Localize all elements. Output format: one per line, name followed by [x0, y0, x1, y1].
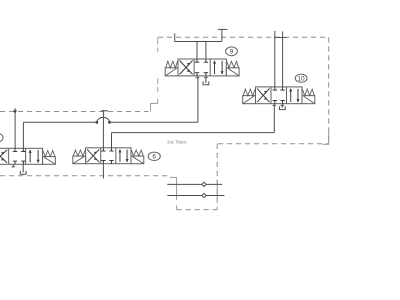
big dashed box bottom-right edge: [218, 143, 329, 145]
spring+solenoid right of valve 9: [227, 61, 239, 68]
big dashed enclosure box (1st valve block), top edge: [158, 36, 329, 38]
label circle 6: [148, 152, 160, 160]
spring+solenoid left of valve 6: [73, 150, 85, 156]
wire: left valve port A up through boundary: [14, 108, 16, 148]
4/3 solenoid valve 10: [256, 87, 303, 104]
crossover hop arc over vertical line: [97, 117, 110, 122]
big dashed box left edge: [157, 37, 159, 44]
left valve drain stub with bar: [12, 164, 14, 167]
junction dot left of crossover: [96, 121, 99, 124]
dashed boundary step to left edge: [151, 102, 158, 104]
coupler dashed sub-box right edge: [216, 144, 218, 210]
valve 10 port bars below body: [273, 104, 277, 106]
riser from valve 9 manifold up left: [174, 33, 176, 41]
wire: valve 9 top ports manifold: [196, 42, 198, 59]
wire: left valve port B up and across to valve 9 drain: [22, 122, 24, 148]
svg-text:9: 9: [230, 49, 234, 56]
wire: valve 6 port A up through boundary, T tick on top: [102, 110, 104, 148]
4/3 solenoid valve 6: [86, 148, 131, 164]
valve 9 tank stub: [205, 76, 207, 82]
svg-text:10: 10: [298, 76, 305, 83]
svg-text:2ος Τάκος: 2ος Τάκος: [167, 138, 187, 144]
wire: valve 6 drain down through dashed line: [102, 164, 104, 179]
coupling line upper: [167, 183, 202, 185]
arrow mark where port A line crosses dashed boundary: [13, 110, 17, 113]
valve 9 port bars below body: [196, 77, 200, 79]
spring+solenoid right of left valve: [43, 151, 55, 157]
4/3 solenoid valve (left, cut off): [0, 148, 43, 164]
spring+solenoid right of valve 6: [131, 150, 143, 156]
spring+solenoid right of valve 10: [302, 89, 314, 96]
quick-coupling diamond upper: [202, 182, 206, 186]
valve 10 work lines rising out of box: [274, 31, 276, 87]
label circle 10: [295, 74, 307, 82]
dashed boundary under valve row: [0, 175, 170, 177]
spring+solenoid left of valve 9: [166, 61, 178, 68]
label circle 9: [226, 47, 238, 56]
dashed boundary line to image left edge: [0, 111, 149, 113]
tank symbol under valve 10: [279, 106, 285, 109]
tank symbol under left valve: [20, 171, 26, 174]
wire continues to valve 9 drain riser: [110, 121, 198, 123]
riser from valve 9 manifold up right with T cap: [221, 29, 223, 41]
quick-coupling diamond lower: [202, 193, 206, 197]
coupler dashed sub-box bottom edge: [177, 209, 218, 211]
label circle (cut) at left edge: [0, 134, 3, 142]
valve 10 tank stub: [281, 104, 283, 107]
spring+solenoid left of valve 10: [243, 89, 255, 96]
junction dot right of crossover: [108, 121, 111, 124]
tank symbol under valve 9: [203, 81, 209, 84]
wire: valve 6 port B up, across to valve 10 bottom: [111, 133, 113, 149]
4/3 solenoid valve 9: [178, 59, 226, 76]
coupler dashed sub-box left bracket: [170, 176, 177, 178]
big dashed box right edge: [328, 37, 330, 144]
svg-text:6: 6: [152, 154, 156, 161]
coupling line lower: [167, 195, 202, 197]
